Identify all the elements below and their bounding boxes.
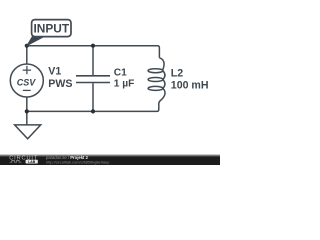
wire top rail: [27, 46, 160, 58]
inductor L2: [148, 58, 165, 104]
svg-text:L2: L2: [171, 67, 183, 79]
watermark logo waveform: [10, 160, 22, 162]
svg-text:CSV: CSV: [17, 78, 37, 88]
svg-text:INPUT: INPUT: [33, 21, 69, 35]
svg-text:V1: V1: [48, 66, 61, 78]
svg-text:LAB: LAB: [28, 160, 36, 164]
wire bottom rail: [27, 103, 159, 111]
svg-text:100 mH: 100 mH: [171, 80, 209, 92]
wire capacitor top lead: [92, 46, 94, 75]
ground: [15, 125, 41, 139]
node INPUT flag box: [32, 20, 71, 37]
watermark logo LAB: [26, 160, 38, 164]
node junction dots: [25, 44, 95, 114]
wire capacitor bottom lead: [92, 83, 94, 111]
wire left branch bottom: [26, 97, 28, 125]
wire left branch top: [26, 46, 28, 64]
capacitor C1: [76, 76, 110, 83]
svg-text:PWS: PWS: [48, 78, 72, 90]
svg-text:1 µF: 1 µF: [114, 79, 135, 90]
node INPUT flag pointer: [27, 36, 44, 45]
voltage source V1: [10, 64, 43, 97]
svg-text:C1: C1: [114, 67, 127, 78]
svg-text:http://circuitlab.com/c/6856kg: http://circuitlab.com/c/6856kg8e9aup: [46, 160, 109, 165]
